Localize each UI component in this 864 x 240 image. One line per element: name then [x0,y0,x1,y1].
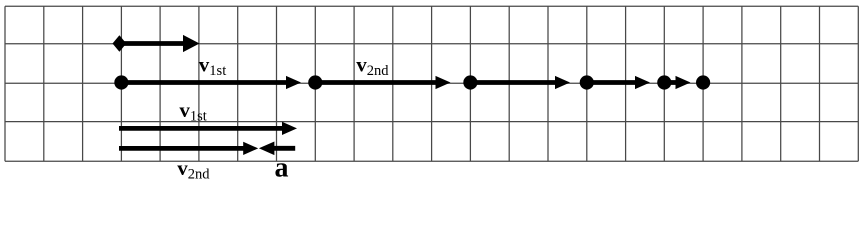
motion-diagram arrow 3 (3 cells) [470,76,570,89]
motion-diagram arrow 1 (5 cells) [121,76,301,89]
vector v_1st (bottom sketch) [119,122,297,135]
motion-diagram arrow 2 (4 cells) [315,76,450,89]
motion-diagram arrow 4 (2 cells) [587,76,650,89]
motion-diagram arrow 5 (1 cell) [664,76,690,89]
position dot 5 [657,75,671,89]
svg-text:a: a [275,152,289,183]
position dot 4 [580,75,594,89]
position dot 3 [463,75,477,89]
vector a pointing left (bottom sketch) [259,142,295,156]
position dot 1 [114,75,128,89]
displacement arrow with diamond tail, row 1 [113,35,200,52]
position dot 2 [308,75,322,89]
position dot 6 [696,75,710,89]
vector v_2nd (bottom sketch) [119,142,258,155]
